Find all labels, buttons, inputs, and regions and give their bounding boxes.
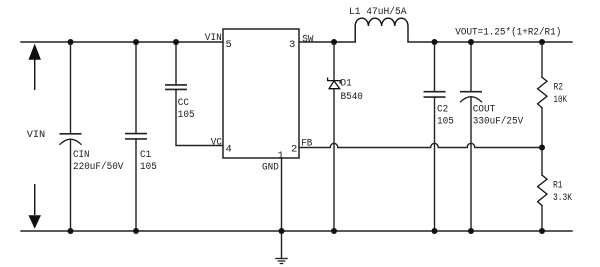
svg-text:10K: 10K (554, 94, 568, 106)
svg-text:VOUT=1.25*(1+R2/R1): VOUT=1.25*(1+R2/R1) (455, 26, 561, 38)
wire R2 bottom stub (541, 108, 543, 148)
svg-text:105: 105 (178, 109, 195, 121)
diode D1 (schottky) (328, 78, 341, 89)
node GND rail (279, 228, 285, 234)
wire D1 vertical bottom (333, 89, 335, 231)
wire CIN vertical top (70, 42, 72, 134)
svg-text:FB: FB (301, 137, 312, 149)
node D1 bottom (331, 228, 337, 234)
svg-text:VIN: VIN (205, 32, 222, 44)
wire VOUT segment (408, 41, 572, 43)
svg-text:2: 2 (291, 144, 297, 156)
wire top rail VIN segment (21, 41, 223, 43)
wire C1 vertical bottom (135, 139, 137, 231)
svg-text:5: 5 (226, 39, 232, 51)
wire COUT vertical top (470, 42, 472, 92)
wire GND pin down (281, 158, 283, 259)
node R1 bottom (539, 228, 545, 234)
node FB/R2R1 (539, 145, 545, 151)
wire CC vertical top (175, 42, 177, 85)
resistor R1 (538, 175, 547, 206)
wire R2 top stub (541, 42, 543, 77)
svg-text:CC: CC (178, 97, 189, 109)
capacitor CC (165, 85, 187, 90)
node C2 top (432, 39, 438, 45)
node CIN bottom (68, 228, 74, 234)
svg-text:C1: C1 (140, 149, 151, 161)
wire FB line with hops (299, 143, 542, 147)
capacitor C2 (424, 92, 446, 97)
node CIN top (68, 39, 74, 45)
svg-text:R1: R1 (553, 179, 563, 191)
node C1 bottom (133, 228, 139, 234)
wire R1 top stub (541, 148, 543, 176)
svg-text:L1 47uH/5A: L1 47uH/5A (349, 6, 407, 18)
svg-text:105: 105 (140, 161, 157, 173)
inductor L1 (355, 18, 408, 42)
svg-text:B540: B540 (341, 91, 363, 103)
svg-text:COUT: COUT (473, 104, 495, 116)
op-amp U1 regulator box (223, 29, 299, 158)
svg-text:VIN: VIN (27, 129, 46, 141)
svg-text:105: 105 (437, 116, 454, 128)
svg-text:3.3K: 3.3K (553, 192, 573, 204)
wire COUT vertical bottom (470, 97, 472, 231)
input arrow up (29, 45, 41, 91)
wire C1 vertical top (135, 42, 137, 134)
capacitor C1 (125, 134, 147, 139)
input arrow down (29, 184, 41, 228)
ground (275, 259, 288, 264)
svg-text:3: 3 (289, 39, 295, 51)
node VOUT/R2 (539, 39, 545, 45)
node CC top (173, 39, 179, 45)
svg-text:C2: C2 (437, 104, 448, 116)
wire CIN vertical bottom (70, 140, 72, 232)
node COUT bottom (468, 228, 474, 234)
capacitor CIN (polarized) (60, 134, 82, 145)
svg-text:4: 4 (226, 144, 232, 156)
capacitor COUT (polarized) (460, 92, 482, 103)
wire R1 bottom stub (541, 206, 543, 231)
svg-text:330uF/25V: 330uF/25V (473, 116, 524, 128)
wire CC to VC pin (176, 89, 223, 145)
node COUT top (468, 39, 474, 45)
svg-text:D1: D1 (341, 78, 352, 90)
svg-text:GND: GND (262, 162, 279, 174)
svg-text:VC: VC (211, 136, 222, 148)
wire bottom rail (21, 230, 572, 232)
node SW/D1 (331, 39, 337, 45)
node C1 top (133, 39, 139, 45)
resistor R2 (538, 77, 547, 108)
svg-text:SW: SW (302, 34, 314, 46)
svg-text:1: 1 (278, 150, 284, 162)
wire D1 vertical top (333, 42, 335, 81)
node C2 bottom (432, 228, 438, 234)
node dots (68, 39, 546, 234)
svg-text:CIN: CIN (73, 149, 90, 161)
svg-text:R2: R2 (554, 81, 564, 93)
wire C2 vertical bottom (434, 97, 436, 231)
svg-text:220uF/50V: 220uF/50V (73, 161, 124, 173)
wire SW segment (299, 41, 355, 43)
wire C2 vertical top (434, 42, 436, 92)
